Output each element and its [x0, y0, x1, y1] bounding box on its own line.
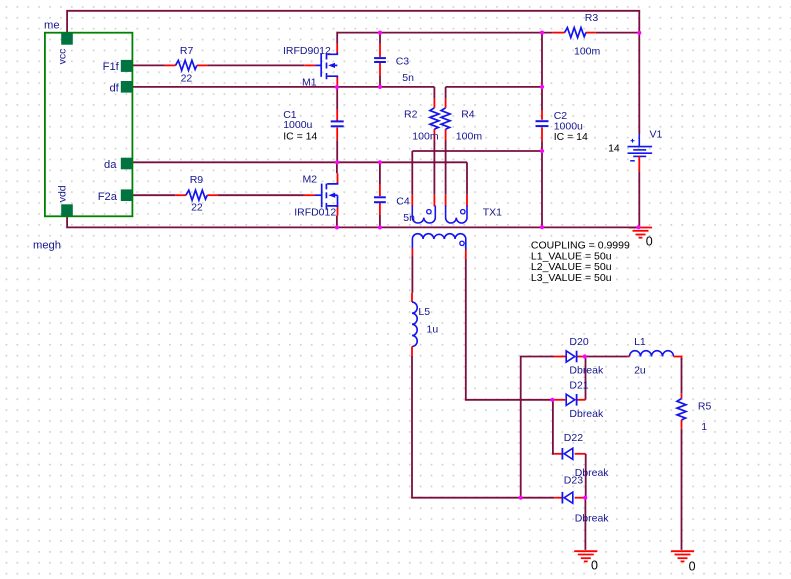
lead R5 top red	[681, 394, 683, 399]
lead M2 source red	[337, 206, 339, 216]
svg-text:TX1: TX1	[483, 206, 502, 218]
V1 minus sign	[630, 160, 635, 162]
svg-text:vcc: vcc	[57, 49, 69, 65]
capacitor C2	[536, 120, 549, 122]
TX1 secondary polarity dot	[460, 241, 464, 245]
svg-text:D21: D21	[569, 380, 588, 392]
svg-text:F2a: F2a	[98, 191, 118, 203]
lead C1 bottom red	[336, 128, 338, 141]
lead D23 anode red	[575, 497, 586, 499]
resistor R7	[176, 60, 197, 70]
lead C2 top red	[541, 110, 543, 120]
port da pin square	[121, 158, 133, 170]
junction M1 source / df row	[335, 85, 339, 89]
wire F2a to R9	[132, 194, 175, 196]
lead R2 bottom red	[433, 129, 435, 140]
resistor R4	[441, 108, 450, 129]
junction C1 bottom / da row	[335, 160, 339, 164]
lead R7 right red	[197, 64, 207, 66]
wire R5 to ground	[681, 429, 683, 550]
lead M2 drain red	[337, 173, 339, 184]
svg-text:5n: 5n	[402, 72, 414, 84]
wire D21-anode-node down to D22 cathode	[553, 400, 554, 454]
resistor R2	[430, 108, 439, 129]
svg-text:IRFD9012: IRFD9012	[283, 45, 331, 57]
wire C2-node corner to R4	[445, 87, 447, 99]
svg-text:1u: 1u	[427, 324, 439, 336]
wire df row	[132, 86, 434, 88]
wire C1 bottom	[336, 140, 338, 162]
wire C2 node to TX1 primary1	[412, 150, 542, 152]
svg-text:vdd: vdd	[57, 185, 69, 202]
port vdd pin square	[61, 204, 73, 216]
wire D20 anode branch	[521, 357, 554, 498]
svg-text:C4: C4	[396, 195, 410, 207]
svg-text:0: 0	[646, 235, 653, 249]
wire C1 top	[336, 87, 338, 110]
junction D23 anode node	[583, 496, 587, 500]
wire C3 bottom	[379, 76, 381, 87]
lead TX1 primary2 left red	[445, 195, 447, 207]
junction D20 branch / L5 net	[519, 496, 523, 500]
lead R3 left red	[553, 32, 565, 34]
svg-text:R2: R2	[404, 108, 418, 120]
wire da node to M2 drain	[336, 162, 338, 173]
svg-text:22: 22	[191, 201, 203, 213]
svg-text:M2: M2	[303, 174, 318, 186]
svg-text:L3_VALUE = 50u: L3_VALUE = 50u	[531, 272, 612, 284]
lead D21 cathode red	[576, 399, 585, 401]
inductor L5	[412, 302, 417, 346]
svg-text:L5: L5	[418, 306, 430, 318]
port df pin square	[121, 81, 133, 93]
svg-text:D22: D22	[564, 432, 583, 444]
lead D23 cathode red	[554, 497, 562, 499]
lead M1 drain red	[336, 44, 338, 54]
wire V1 to ground rail	[638, 171, 640, 227]
voltage source V1 battery	[628, 146, 653, 148]
wire R4 to TX1 primary2 left	[445, 141, 447, 195]
lead C3 top red	[379, 44, 381, 57]
svg-text:IC = 14: IC = 14	[283, 130, 317, 142]
wire megh rail	[67, 216, 639, 227]
lead M2 gate red	[304, 194, 315, 196]
wire D22 anode down to D23 anode node	[585, 454, 587, 498]
svg-text:R7: R7	[180, 45, 194, 57]
wire M2 source to megh rail	[336, 216, 338, 228]
ground 0 at D23	[574, 550, 597, 552]
svg-text:0: 0	[591, 558, 598, 572]
lead C4 top red	[379, 184, 381, 196]
junction C2 branch / megh rail	[540, 225, 544, 229]
transformer TX1 primary winding 2	[446, 206, 467, 224]
svg-text:1: 1	[701, 421, 707, 433]
resistor R3	[565, 28, 586, 38]
wire da corner down to TX1 primary2	[466, 162, 468, 194]
junction C4 bottom / megh rail	[378, 225, 382, 229]
wire megh rail over ground bar	[629, 226, 639, 228]
wire C2 bottom to megh rail	[541, 141, 543, 227]
lead D20 cathode red	[577, 356, 585, 358]
svg-text:1000u: 1000u	[283, 119, 312, 131]
lead C4 bottom red	[379, 203, 381, 215]
lead C3 bottom red	[379, 63, 381, 76]
hierarchical block U?	[45, 33, 132, 217]
wire R3 right lead to V1 node	[596, 32, 639, 34]
wire F1f to R7	[132, 64, 165, 66]
junction C3 top	[378, 30, 382, 34]
junction C2 bottom / TX1 wire	[540, 149, 544, 153]
wire M1 drain vertical	[336, 32, 338, 44]
lead M1 gate red	[304, 64, 315, 66]
resistor R5	[677, 399, 686, 420]
capacitor C4	[374, 196, 386, 198]
port F1f pin square	[121, 60, 133, 72]
svg-text:2u: 2u	[634, 364, 646, 376]
wire C3 top	[379, 33, 381, 44]
transistor M1 IRFD9012	[315, 53, 337, 80]
TX1 primary 2 polarity dot	[461, 210, 465, 214]
svg-text:14: 14	[608, 143, 620, 155]
svg-text:D20: D20	[569, 336, 588, 348]
svg-text:100m: 100m	[574, 46, 601, 58]
diode D20	[566, 351, 575, 362]
transformer TX1 secondary winding	[412, 234, 465, 250]
lead L1 right red	[674, 357, 682, 361]
wire D20/D21 cathode vertical	[585, 357, 587, 400]
svg-text:100m: 100m	[456, 131, 483, 143]
diode D22	[561, 448, 563, 460]
lead R4 top red	[445, 99, 447, 108]
capacitor C3	[374, 57, 386, 59]
wire da row	[132, 161, 467, 163]
svg-text:R4: R4	[461, 108, 475, 120]
wire L1 to R5	[681, 358, 683, 394]
diode D21	[566, 394, 575, 405]
wire R3 node down	[541, 33, 543, 87]
wire R4 top to C2 node	[446, 86, 542, 88]
lead D21 anode red	[553, 399, 566, 401]
svg-text:IC = 14: IC = 14	[554, 131, 588, 143]
inductor L1	[630, 351, 674, 357]
wire R2 to TX1 primary1 right	[433, 141, 435, 195]
V1 plus sign	[631, 140, 635, 142]
svg-text:Dbreak: Dbreak	[569, 408, 604, 420]
svg-text:L1: L1	[634, 336, 646, 348]
svg-text:V1: V1	[650, 128, 663, 140]
lead R9 left red	[175, 194, 186, 196]
junction D20 cathode node	[583, 354, 587, 358]
svg-text:Dbreak: Dbreak	[575, 512, 610, 524]
svg-text:M1: M1	[302, 76, 317, 88]
capacitor C1	[331, 120, 344, 122]
ground 0 at R5	[671, 550, 694, 552]
port F2a pin square	[121, 189, 133, 201]
wire C4 bottom	[379, 215, 381, 227]
lead D22 anode red	[575, 453, 586, 455]
junction C4 top / da row	[378, 160, 382, 164]
lead TX1 secondary right red	[465, 250, 467, 259]
junction M2 source / megh rail	[335, 225, 339, 229]
wire top rail net me	[67, 11, 639, 134]
lead V1 minus red	[638, 156, 640, 171]
lead C2 bottom red	[541, 127, 543, 141]
lead L5 top red	[411, 293, 413, 302]
junction megh rail / V1 ground	[637, 225, 641, 229]
wire M1 source to node	[336, 86, 338, 87]
junction C2 top node	[540, 85, 544, 89]
wire y33 M1 drain to R3	[337, 32, 553, 34]
svg-text:F1f: F1f	[103, 61, 120, 73]
junction R3 left node	[540, 30, 544, 34]
lead R4 bottom red	[445, 129, 447, 140]
svg-text:22: 22	[181, 73, 193, 85]
ground 0 at V1	[629, 227, 652, 229]
wire C4 top	[379, 162, 381, 184]
wire secondary right leg down to D21 row	[466, 259, 553, 400]
junction V1 node / R3	[637, 31, 641, 35]
lead M1 source red	[336, 76, 338, 86]
svg-text:R9: R9	[190, 174, 204, 186]
lead R2 top red	[433, 99, 435, 108]
svg-text:df: df	[109, 82, 119, 94]
lead R9 right red	[207, 194, 217, 196]
svg-text:me: me	[44, 20, 60, 32]
transistor M2 IRFD012	[315, 183, 338, 210]
svg-text:0: 0	[689, 559, 696, 573]
wire L5 bottom to D23 row	[412, 356, 554, 498]
lead R5 bottom red	[681, 420, 683, 429]
TX1 primary 1 polarity dot	[427, 210, 431, 214]
wire R9 to M2 gate	[218, 194, 304, 196]
junction C3 bottom / df row	[378, 85, 382, 89]
lead L1 left red	[627, 356, 629, 358]
lead C1 top red	[336, 110, 338, 121]
svg-text:R5: R5	[698, 401, 712, 413]
svg-text:C3: C3	[396, 55, 410, 67]
svg-text:5n: 5n	[403, 212, 415, 224]
port vcc pin square	[61, 33, 73, 45]
svg-text:Dbreak: Dbreak	[569, 364, 604, 376]
lead L5 bottom red	[411, 347, 413, 356]
diode D23	[561, 492, 563, 504]
svg-text:megh: megh	[33, 240, 61, 252]
resistor R9	[186, 190, 207, 200]
lead TX1 secondary left red	[411, 248, 413, 255]
lead D20 anode red	[554, 356, 566, 358]
lead TX1 primary1 left red	[411, 195, 413, 207]
wire D23 node to ground	[584, 498, 586, 550]
svg-text:IRFD012: IRFD012	[294, 207, 336, 219]
lead D22 cathode red	[554, 453, 562, 455]
junction D21 anode node	[550, 398, 554, 402]
lead TX1 primary1 right red	[433, 195, 435, 207]
transformer TX1 primary winding 1	[412, 206, 435, 224]
wire R7 to M1 gate	[207, 64, 304, 66]
lead R3 right red	[586, 32, 596, 34]
svg-text:100m: 100m	[412, 131, 439, 143]
wire C2 top	[541, 87, 543, 110]
wire secondary left to L5	[411, 255, 413, 292]
svg-text:D23: D23	[564, 475, 583, 487]
lead TX1 primary2 right red	[466, 195, 468, 207]
svg-text:R3: R3	[585, 12, 599, 24]
wire TX1 primary1 left leg	[411, 151, 413, 195]
wire df corner to R2	[433, 87, 435, 99]
wire D20 cathode to L1	[585, 356, 627, 358]
lead R7 left red	[165, 64, 176, 66]
lead V1 plus	[638, 134, 640, 147]
svg-text:da: da	[104, 159, 117, 171]
